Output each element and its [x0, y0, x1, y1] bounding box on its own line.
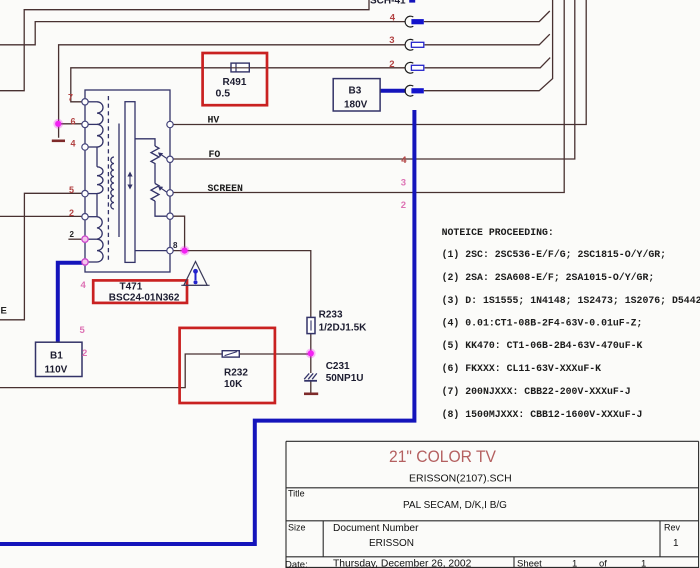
svg-text:5: 5	[80, 325, 86, 336]
svg-text:R491: R491	[223, 77, 247, 88]
svg-text:110V: 110V	[45, 365, 68, 376]
svg-text:7: 7	[68, 93, 73, 103]
svg-text:Sheet: Sheet	[517, 559, 542, 568]
svg-text:B1: B1	[50, 351, 63, 362]
svg-text:Document Number: Document Number	[333, 523, 419, 534]
svg-text:SCREEN: SCREEN	[208, 183, 244, 194]
svg-text:(5) KK470: CT1-06B-2B4-63V-470: (5) KK470: CT1-06B-2B4-63V-470uF-K	[442, 340, 643, 351]
svg-text:4: 4	[81, 280, 87, 291]
svg-text:(3) D: 1S1555; 1N4148; 1S2473;: (3) D: 1S1555; 1N4148; 1S2473; 1S2076; D…	[442, 295, 700, 306]
svg-text:FO: FO	[209, 149, 221, 160]
svg-text:(4) 0.01:CT1-08B-2F4-63V-0.01u: (4) 0.01:CT1-08B-2F4-63V-0.01uF-Z;	[442, 317, 643, 328]
svg-text:50NP1U: 50NP1U	[326, 373, 364, 384]
svg-text:B3: B3	[349, 86, 362, 97]
svg-text:SCH-41: SCH-41	[370, 0, 406, 7]
svg-text:5: 5	[69, 185, 74, 195]
svg-text:1/2DJ1.5K: 1/2DJ1.5K	[319, 322, 368, 333]
svg-text:HV: HV	[208, 115, 220, 126]
svg-text:2: 2	[389, 59, 394, 70]
svg-text:(2) 2SA: 2SA608-E/F; 2SA1015-O: (2) 2SA: 2SA608-E/F; 2SA1015-O/Y/GR;	[442, 272, 655, 283]
svg-text:T471: T471	[120, 282, 143, 293]
svg-text:E: E	[1, 305, 7, 316]
svg-text:of: of	[599, 559, 607, 568]
svg-text:10K: 10K	[224, 379, 243, 390]
svg-text:Date:: Date:	[285, 560, 308, 568]
svg-text:BSC24-01N362: BSC24-01N362	[109, 292, 180, 303]
svg-text:(1) 2SC: 2SC536-E/F/G; 2SC1815: (1) 2SC: 2SC536-E/F/G; 2SC1815-O/Y/GR;	[442, 249, 666, 260]
svg-text:180V: 180V	[344, 100, 368, 111]
svg-text:8: 8	[173, 241, 178, 250]
svg-text:2: 2	[82, 348, 87, 359]
svg-text:ERISSON: ERISSON	[369, 538, 414, 549]
svg-text:PAL SECAM, D/K,I B/G: PAL SECAM, D/K,I B/G	[403, 500, 507, 511]
svg-text:(8) 1500MJXXX: CBB12-1600V-XXX: (8) 1500MJXXX: CBB12-1600V-XXXuF-J	[442, 409, 643, 420]
svg-text:2: 2	[69, 208, 74, 218]
svg-text:NOTEICE PROCEEDING:: NOTEICE PROCEEDING:	[442, 227, 554, 238]
svg-text:(7) 200NJXXX: CBB22-200V-XXXuF: (7) 200NJXXX: CBB22-200V-XXXuF-J	[442, 386, 631, 397]
svg-text:Title: Title	[288, 489, 305, 499]
svg-text:21" COLOR TV: 21" COLOR TV	[389, 447, 497, 466]
svg-text:1: 1	[641, 559, 646, 568]
svg-text:C231: C231	[326, 361, 350, 372]
svg-text:2: 2	[70, 230, 75, 239]
svg-text:R232: R232	[224, 367, 248, 378]
svg-text:1: 1	[673, 538, 679, 549]
svg-text:2: 2	[401, 200, 406, 211]
svg-text:4: 4	[390, 13, 396, 24]
svg-text:6: 6	[71, 117, 76, 127]
svg-text:4: 4	[71, 139, 76, 149]
svg-text:R233: R233	[319, 310, 343, 321]
svg-text:Size: Size	[288, 523, 306, 533]
svg-text:Thursday, December 26, 2002: Thursday, December 26, 2002	[333, 559, 472, 568]
svg-text:4: 4	[401, 155, 407, 166]
svg-text:(6) FKXXX: CL11-63V-XXXuF-K: (6) FKXXX: CL11-63V-XXXuF-K	[442, 363, 602, 374]
svg-text:3: 3	[401, 177, 406, 188]
svg-text:Rev: Rev	[664, 523, 681, 533]
svg-text:3: 3	[389, 35, 394, 46]
svg-text:0.5: 0.5	[216, 88, 231, 100]
svg-text:1: 1	[572, 559, 577, 568]
svg-text:ERISSON(2107).SCH: ERISSON(2107).SCH	[409, 472, 512, 484]
